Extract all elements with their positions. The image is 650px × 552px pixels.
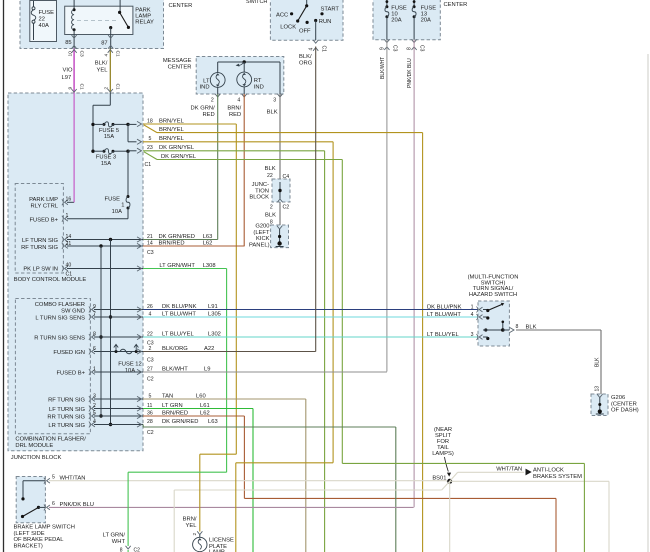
- junction block ground connector: [249, 166, 290, 202]
- svg-text:YEL: YEL: [97, 68, 109, 74]
- svg-text:BLK/: BLK/: [95, 60, 108, 66]
- svg-text:BRN/YEL: BRN/YEL: [159, 127, 185, 133]
- wire DK GRN/YEL row5: [144, 152, 342, 464]
- svg-text:START: START: [321, 7, 340, 13]
- wire DK GRN/RED L63 to message center: [143, 239, 218, 241]
- ignition switch position labels: [276, 7, 339, 35]
- message center pin 2: [211, 94, 220, 104]
- svg-text:BRN/: BRN/: [183, 517, 197, 523]
- park lamp relay switch: [109, 0, 130, 35]
- wire LT BLU/WHT L305: [143, 316, 478, 318]
- wire TAN L60: [143, 399, 306, 552]
- connector row 21 DK GRN/RED: [137, 234, 212, 242]
- svg-text:28: 28: [147, 419, 153, 425]
- svg-text:CENTER: CENTER: [168, 64, 192, 70]
- svg-text:4: 4: [471, 312, 474, 318]
- svg-text:4: 4: [309, 48, 315, 51]
- message center bus: [218, 60, 280, 94]
- svg-text:FUSE: FUSE: [39, 10, 55, 16]
- svg-text:LT BLU/WHT: LT BLU/WHT: [427, 312, 461, 318]
- wire BRN/YEL row1: [143, 124, 236, 454]
- svg-text:C3: C3: [147, 358, 154, 364]
- svg-text:VIO: VIO: [63, 68, 73, 74]
- connector row 11 LT GRN: [137, 403, 210, 411]
- svg-text:DK GRN/RED: DK GRN/RED: [162, 419, 198, 425]
- connector row 5 TAN: [137, 393, 206, 401]
- svg-text:BLK: BLK: [265, 166, 276, 172]
- svg-text:FUSE: FUSE: [105, 196, 121, 202]
- svg-text:LOCK: LOCK: [280, 24, 296, 30]
- svg-text:C1: C1: [66, 272, 73, 278]
- flasher pin 1 FUSED B+: [56, 366, 143, 376]
- svg-text:1: 1: [121, 203, 124, 209]
- flasher pin 8 R TURN SIG SENS: [34, 331, 143, 341]
- svg-text:PNK/DK BLU: PNK/DK BLU: [407, 58, 413, 88]
- brake switch pin 6: [44, 501, 94, 510]
- wire BLK/YEL feed inside junction block: [91, 93, 110, 153]
- svg-text:RR TURN SIG: RR TURN SIG: [47, 415, 85, 421]
- switch pin 3: [471, 332, 483, 340]
- wire fuse3 to row4 arrow: [128, 150, 137, 152]
- brake switch pin 5: [44, 475, 86, 484]
- wire BLK/WHT L9: [143, 371, 387, 373]
- svg-text:C3: C3: [419, 45, 425, 52]
- svg-text:CENTER: CENTER: [444, 2, 468, 8]
- svg-text:LR TURN SIG: LR TURN SIG: [48, 423, 85, 429]
- wire WHT/TAN to anti-lock brakes: [450, 467, 582, 482]
- body control module box: [14, 184, 87, 284]
- svg-text:40: 40: [66, 262, 72, 268]
- fuse 13 label: [421, 6, 437, 24]
- svg-text:22: 22: [267, 173, 273, 179]
- BCM pin 16 PARK LMP RLY CTRL: [29, 93, 74, 210]
- svg-text:5: 5: [52, 475, 55, 481]
- power distribution center box: [20, 0, 192, 49]
- svg-text:10A: 10A: [112, 209, 122, 215]
- svg-text:C1: C1: [321, 46, 327, 53]
- svg-text:8: 8: [120, 548, 123, 552]
- svg-text:(CENTER: (CENTER: [611, 401, 637, 407]
- connector row 18 BRN/YEL: [137, 118, 185, 126]
- message center pin 3: [273, 94, 282, 104]
- svg-text:OF BRAKE PEDAL: OF BRAKE PEDAL: [14, 537, 65, 543]
- connector row 26 DK BLU/PNK: [137, 304, 218, 312]
- svg-text:RT: RT: [254, 78, 262, 84]
- G200 ground connector: [249, 224, 289, 249]
- svg-text:9: 9: [68, 87, 74, 90]
- park lamp relay coil: [72, 0, 76, 35]
- svg-text:2: 2: [192, 533, 198, 536]
- wire WHT/TAN center branch: [449, 481, 451, 552]
- switch pin 4: [471, 312, 483, 320]
- wire DK GRN/YEL split left: [236, 463, 333, 552]
- fuse 13 connector pin: [407, 39, 425, 51]
- svg-text:1: 1: [66, 213, 69, 219]
- svg-text:LT GRN/: LT GRN/: [103, 533, 126, 539]
- svg-text:13: 13: [421, 12, 427, 18]
- svg-text:10: 10: [391, 12, 397, 18]
- svg-text:LAMPS): LAMPS): [432, 451, 454, 457]
- svg-text:15A: 15A: [104, 134, 114, 140]
- G206 ground connector: [591, 394, 639, 416]
- wire LT GRN L61: [143, 409, 253, 552]
- ignition switch output pin: [309, 21, 327, 53]
- wire fuse5 to row3: [128, 124, 137, 141]
- BCM pin 40 PK LP SW IN: [23, 262, 143, 277]
- svg-text:PK LP SW IN: PK LP SW IN: [23, 267, 58, 273]
- BCM pin 14 LF TURN SIG: [22, 234, 143, 244]
- svg-text:3: 3: [273, 98, 276, 104]
- connector row 5 BRN/YEL: [137, 136, 185, 144]
- svg-text:ORG: ORG: [299, 61, 313, 67]
- svg-text:LT BLU/YEL: LT BLU/YEL: [427, 332, 459, 338]
- svg-text:FUSE: FUSE: [421, 6, 437, 12]
- svg-text:OFF: OFF: [299, 29, 311, 35]
- license plate lamp: [192, 531, 234, 552]
- svg-text:(LEFT: (LEFT: [253, 230, 270, 236]
- svg-text:8: 8: [516, 324, 519, 330]
- svg-text:G200: G200: [255, 224, 269, 230]
- svg-text:C1: C1: [79, 84, 85, 90]
- svg-text:PARK LMP: PARK LMP: [29, 197, 58, 203]
- svg-text:40A: 40A: [39, 23, 49, 29]
- wire PNK/DK BLU vertical: [407, 40, 414, 508]
- svg-text:RF TURN SIG: RF TURN SIG: [21, 245, 58, 251]
- connector C1 label: [145, 162, 152, 168]
- wire fuse5 to row1 arrow: [128, 123, 137, 125]
- svg-text:13: 13: [594, 386, 600, 392]
- svg-text:2: 2: [211, 98, 214, 104]
- wire LT BLU/YEL L302: [143, 336, 478, 338]
- BCM pin 1 FUSED B+: [29, 213, 68, 224]
- switch internal contacts: [483, 303, 509, 340]
- wire BLK from message center: [267, 94, 280, 179]
- wire BLK/WHT vertical: [380, 40, 387, 372]
- connector row 2 BLK/ORG: [137, 346, 214, 364]
- junction block ground pins: [265, 205, 289, 226]
- svg-text:DK GRN/YEL: DK GRN/YEL: [161, 154, 197, 160]
- svg-text:FUSED B+: FUSED B+: [56, 371, 85, 377]
- fuse 10 connector pin: [380, 39, 398, 51]
- wire BRN/YEL row2: [144, 125, 423, 552]
- wire DK GRN/RED L63 lower: [143, 425, 396, 552]
- svg-text:R TURN SIG SENS: R TURN SIG SENS: [34, 336, 85, 342]
- svg-text:HAZARD SWITCH: HAZARD SWITCH: [469, 292, 517, 298]
- switch pin 1: [471, 304, 483, 312]
- fuse 10 / fuse 13 box: [373, 0, 467, 40]
- junction block top connectors: [72, 50, 113, 93]
- svg-text:LF TURN SIG: LF TURN SIG: [49, 407, 85, 413]
- svg-text:TION: TION: [255, 188, 269, 194]
- flasher pin 3 RF TURN SIG: [48, 393, 143, 403]
- svg-text:FUSE 12: FUSE 12: [118, 362, 142, 368]
- multi-function switch label: [468, 275, 519, 298]
- svg-text:BLK: BLK: [267, 110, 278, 116]
- svg-text:85: 85: [65, 40, 71, 46]
- svg-text:FUSE 5: FUSE 5: [99, 128, 119, 134]
- svg-text:BLOCK: BLOCK: [249, 195, 269, 201]
- wire fuse1 to BCM fused B+: [67, 208, 128, 219]
- svg-text:L63: L63: [208, 419, 218, 425]
- wire DK GRN/YEL split right: [342, 463, 584, 552]
- svg-text:C2: C2: [134, 548, 141, 552]
- svg-text:BS01: BS01: [432, 476, 446, 482]
- svg-text:16: 16: [66, 197, 72, 203]
- wire BLK/ORG A22: [143, 351, 316, 353]
- svg-text:4: 4: [104, 54, 110, 57]
- svg-text:OF DASH): OF DASH): [611, 408, 639, 414]
- wire BRN/RED L62 lower: [143, 416, 556, 552]
- fuse 22 label: [39, 10, 55, 29]
- flasher pin 5 RR TURN SIG: [47, 410, 143, 420]
- brake lamp switch contacts: [21, 481, 46, 518]
- connector row 36 BRN/RED: [137, 410, 210, 418]
- fuse 3 15A: [94, 149, 130, 167]
- wire BRN/RED L62 to message center: [143, 245, 245, 247]
- svg-text:10A: 10A: [125, 368, 135, 374]
- svg-text:JUNCTION BLOCK: JUNCTION BLOCK: [11, 455, 62, 461]
- wire BRN/YEL license lamp feed: [183, 454, 237, 531]
- indicator lamp RT IND: [237, 62, 264, 94]
- svg-text:SW GND: SW GND: [61, 308, 85, 314]
- fuse 22 40A symbol: [31, 1, 36, 40]
- svg-text:15A: 15A: [101, 161, 111, 167]
- wire WHT/TAN to BS01: [49, 480, 450, 483]
- svg-text:RELAY: RELAY: [135, 20, 154, 26]
- ignition switch box: [246, 0, 343, 40]
- svg-text:RLY CTRL: RLY CTRL: [31, 203, 59, 209]
- connector row 27 BLK/WHT: [137, 366, 210, 382]
- relay pin 85: [65, 35, 77, 49]
- svg-text:C2: C2: [147, 430, 154, 436]
- connector row LT GRN/WHT: [137, 263, 216, 271]
- svg-text:2: 2: [270, 205, 273, 211]
- combination flasher box: [15, 299, 90, 449]
- park lamp relay box: [65, 6, 133, 34]
- svg-text:RUN: RUN: [319, 19, 332, 25]
- svg-text:L97: L97: [62, 75, 72, 81]
- wire BLK/YEL from relay: [95, 49, 121, 93]
- wire L turn sig interconnect: [109, 240, 112, 427]
- svg-text:BRN/: BRN/: [227, 106, 241, 112]
- svg-text:C1: C1: [145, 162, 152, 168]
- svg-text:RF TURN SIG: RF TURN SIG: [48, 398, 85, 404]
- flasher pin 4 LR TURN SIG: [48, 419, 143, 429]
- wire VIO L97: [62, 49, 85, 93]
- switch wire labels: [427, 304, 462, 338]
- wire DK GRN/RED from message center: [191, 94, 218, 240]
- connector row 4 LT BLU/WHT: [137, 311, 221, 319]
- svg-text:FUSED B+: FUSED B+: [29, 218, 58, 224]
- svg-text:87: 87: [101, 40, 107, 46]
- svg-text:(LEFT SIDE: (LEFT SIDE: [14, 531, 45, 537]
- svg-text:9: 9: [380, 47, 386, 50]
- multi-function switch box: [478, 301, 509, 346]
- fuse 1 10A: [105, 195, 130, 215]
- svg-text:22: 22: [39, 17, 45, 23]
- switch pin 8 output: [510, 324, 537, 333]
- wire LT GRN/WHT lower branch: [103, 472, 227, 552]
- svg-text:DK BLU/PNK: DK BLU/PNK: [427, 304, 462, 310]
- svg-text:FUSE: FUSE: [391, 6, 407, 12]
- svg-text:BRAKES SYSTEM: BRAKES SYSTEM: [533, 474, 582, 480]
- junction block box: [8, 93, 143, 461]
- svg-text:BLK: BLK: [594, 357, 600, 367]
- fuse 10 symbol: [385, 0, 389, 40]
- wire WHT/TAN left tail lamp branch: [174, 481, 450, 552]
- svg-text:LT: LT: [203, 78, 210, 84]
- connector row 22 LT BLU/YEL: [137, 331, 221, 346]
- svg-text:C1: C1: [115, 51, 121, 57]
- fuse 13 symbol: [412, 0, 416, 40]
- svg-text:C3: C3: [79, 51, 85, 57]
- svg-text:C2: C2: [147, 377, 154, 383]
- page edge wire: [647, 54, 649, 552]
- connector row 28 DK GRN/RED: [137, 419, 218, 436]
- wire PNK/DK BLU lower: [49, 506, 413, 509]
- wire fuse3 to fuse1: [127, 151, 129, 196]
- fuse 22 40A box: [30, 1, 57, 42]
- svg-text:20A: 20A: [391, 18, 401, 24]
- splice BS01: [432, 427, 454, 484]
- svg-text:L TURN SIG SENS: L TURN SIG SENS: [35, 316, 85, 322]
- svg-text:3: 3: [471, 332, 474, 338]
- wire DK GRN/YEL row4: [143, 151, 325, 552]
- svg-text:LICENSE: LICENSE: [209, 538, 234, 544]
- message center box: [163, 57, 284, 95]
- indicator lamp LT IND: [200, 62, 226, 94]
- svg-text:BRAKE LAMP SWITCH: BRAKE LAMP SWITCH: [14, 525, 75, 531]
- svg-text:MESSAGE: MESSAGE: [163, 58, 192, 64]
- svg-text:PANEL): PANEL): [249, 242, 270, 248]
- svg-text:BLK: BLK: [265, 212, 276, 218]
- relay pin 87: [101, 35, 113, 49]
- svg-text:IND: IND: [200, 85, 210, 91]
- brake lamp switch box: [16, 477, 45, 523]
- svg-text:2: 2: [104, 87, 110, 90]
- brake lamp switch label: [14, 525, 75, 550]
- svg-text:FUSE 3: FUSE 3: [96, 155, 116, 161]
- svg-text:8: 8: [407, 47, 413, 50]
- wire BLK/ORG vertical from ignition switch: [299, 47, 316, 352]
- svg-text:BRACKET): BRACKET): [14, 543, 43, 549]
- wire LT GRN/WHT L308: [143, 269, 227, 473]
- park lamp relay label: [135, 8, 154, 26]
- svg-text:C3: C3: [147, 250, 154, 256]
- svg-text:COMBO FLASHER: COMBO FLASHER: [35, 302, 85, 308]
- flasher pin 6 FUSED IGN: [53, 346, 143, 356]
- svg-text:CENTER: CENTER: [169, 3, 193, 9]
- svg-text:IND: IND: [254, 84, 264, 90]
- svg-text:SWITCH: SWITCH: [246, 0, 267, 5]
- svg-text:DRL MODULE: DRL MODULE: [15, 443, 53, 449]
- wire WHT/TAN right tail lamp branch: [450, 481, 609, 552]
- svg-text:COMBINATION FLASHER/: COMBINATION FLASHER/: [15, 437, 86, 443]
- svg-text:C1: C1: [115, 84, 121, 90]
- svg-text:BODY CONTROL MODULE: BODY CONTROL MODULE: [14, 277, 87, 283]
- svg-text:20A: 20A: [421, 18, 431, 24]
- svg-text:JUNC-: JUNC-: [252, 182, 269, 188]
- fuse 12 10A: [114, 344, 142, 373]
- svg-text:ACC: ACC: [276, 13, 288, 19]
- wire DK BLU/PNK L91: [143, 309, 478, 311]
- svg-text:G206: G206: [611, 395, 625, 401]
- svg-text:FUSED IGN: FUSED IGN: [53, 350, 85, 356]
- flasher pin 2 LF TURN SIG: [49, 403, 143, 413]
- svg-text:LF TURN SIG: LF TURN SIG: [22, 238, 58, 244]
- svg-text:WHT: WHT: [112, 539, 126, 545]
- connector row 23 DK GRN/YEL: [137, 145, 195, 153]
- svg-text:RED: RED: [229, 112, 241, 118]
- wire BLK to G200: [279, 202, 281, 228]
- wire BRN/YEL row3: [143, 142, 333, 463]
- svg-text:BLK/: BLK/: [299, 54, 312, 60]
- svg-text:YEL: YEL: [186, 523, 198, 529]
- svg-text:DK GRN/: DK GRN/: [191, 106, 216, 112]
- page border left: [3, 0, 5, 552]
- svg-text:RED: RED: [202, 112, 214, 118]
- svg-text:KICK: KICK: [256, 236, 270, 242]
- BCM pin 21 RF TURN SIG: [21, 241, 143, 251]
- fuse 5 15A: [94, 122, 130, 140]
- wire BLK to G206: [516, 330, 601, 394]
- svg-text:1: 1: [471, 304, 474, 310]
- message center pin 4: [237, 94, 246, 104]
- ignition switch contacts: [290, 0, 324, 24]
- svg-text:C2: C2: [283, 205, 290, 211]
- wire R turn sig interconnect: [99, 246, 102, 418]
- svg-text:WHT/TAN: WHT/TAN: [496, 467, 522, 473]
- flasher pin 9 COMBO FLASHER SW GND: [35, 302, 143, 314]
- park lamp relay internal dashed link: [77, 19, 117, 21]
- fuse 10 label: [391, 6, 407, 24]
- connector row 14 BRN/RED: [137, 240, 212, 255]
- wire BRN/RED from message center: [227, 94, 244, 246]
- svg-text:BLK/WHT: BLK/WHT: [380, 57, 386, 79]
- svg-text:C3: C3: [392, 45, 398, 52]
- svg-text:6: 6: [52, 501, 55, 507]
- flasher pin 7 L TURN SIG SENS: [35, 311, 143, 321]
- svg-text:ANTI-LOCK: ANTI-LOCK: [533, 468, 564, 474]
- svg-text:4: 4: [237, 98, 240, 104]
